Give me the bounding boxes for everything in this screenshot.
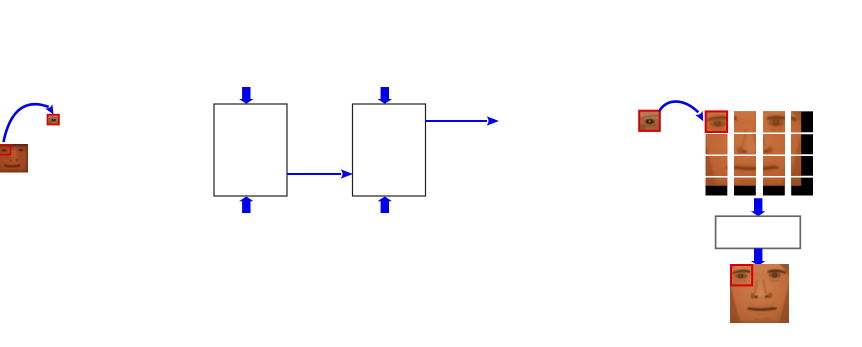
- red ROI box on output face: [731, 265, 752, 285]
- block 2 (right RNN box): [353, 104, 426, 196]
- recurrent arrow: block 1 to block 2: [287, 169, 353, 178]
- thick input arrow (top of block 2): [378, 87, 393, 104]
- curved arrow: patch to grid: [660, 102, 707, 124]
- fusion box: [716, 216, 801, 248]
- block 1 (left RNN box): [214, 104, 287, 196]
- thick arrow: grid to fusion box: [751, 198, 766, 216]
- output face image (bottom right): [729, 263, 790, 325]
- thick input arrow (bottom of block 2): [378, 197, 393, 214]
- thick input arrow (bottom of block 1): [239, 197, 254, 214]
- eye patch (right, input): [637, 111, 662, 132]
- input face image (left, clipped at edge): [0, 144, 29, 174]
- red ROI box on grid cell 1: [706, 111, 727, 132]
- output arrow from block 2: [426, 116, 500, 125]
- extracted patch (left): [46, 115, 60, 125]
- thick input arrow (top of block 1): [239, 87, 254, 104]
- red ROI box on input face: [0, 145, 11, 155]
- curved arrow: face to patch (left): [4, 104, 58, 142]
- patch grid: 4x4 face patches: [702, 107, 813, 195]
- thick arrow: fusion box to face: [751, 248, 766, 265]
